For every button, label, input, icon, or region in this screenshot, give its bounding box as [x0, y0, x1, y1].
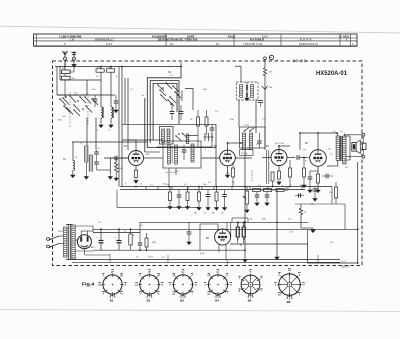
svg-text:B1: B1	[110, 299, 114, 303]
ground L10	[72, 171, 74, 174]
tube B1 leads	[120, 157, 129, 159]
mains plug terminal 2	[47, 245, 50, 248]
wire antenna into box	[64, 60, 66, 66]
tube base B3 diagram	[173, 275, 192, 294]
wire mid horizontal y124	[122, 123, 216, 125]
capacitor marks C8	[258, 100, 263, 102]
wire left verticals bundle	[56, 67, 58, 96]
svg-text:1 TRUCTM TJ KA.: 1 TRUCTM TJ KA.	[243, 43, 263, 46]
grid cap C9	[114, 156, 116, 161]
speaker	[352, 143, 356, 152]
wire speaker terminals	[345, 134, 362, 136]
svg-text:m: m	[230, 283, 232, 286]
svg-text:KALD: KALD	[228, 34, 235, 38]
title table row line 1	[34, 37, 358, 39]
tube B2 top lead	[227, 143, 229, 150]
switch gang dashed line	[87, 93, 89, 126]
svg-text:9101 B: 9101 B	[342, 265, 350, 268]
wire rectifier cathode out	[83, 249, 85, 255]
wire y244 link	[230, 243, 308, 245]
tube B1	[129, 151, 144, 166]
svg-text:WAARDENAJ.LT: WAARDENAJ.LT	[95, 38, 115, 41]
wire right feed vertical	[357, 162, 359, 263]
resistor R19	[215, 192, 218, 201]
resistor R3 box	[62, 70, 71, 74]
coil L6 in can	[191, 144, 194, 162]
tube B6	[215, 229, 231, 245]
resistor R24 screen	[334, 187, 337, 198]
capacitor C28	[138, 242, 143, 244]
resistor R14 horizontal	[264, 189, 272, 192]
svg-text:4a 4a: 4a 4a	[244, 125, 250, 127]
resistor R9	[242, 227, 245, 237]
svg-text:1M: 1M	[269, 72, 272, 74]
tube B2	[220, 150, 236, 166]
svg-text:HX520A-01: HX520A-01	[316, 71, 348, 77]
wire transformer taps	[75, 225, 93, 227]
ground cluster right	[108, 175, 112, 180]
wire b6 agc link	[139, 222, 141, 238]
resistor R11 vertical	[271, 172, 274, 181]
title table column lines	[36, 34, 38, 46]
ground R7	[114, 176, 118, 181]
wire switch feed	[64, 86, 66, 98]
ground R21	[302, 183, 306, 188]
capacitor C19	[206, 194, 211, 196]
wire earth into box	[73, 65, 75, 68]
tube B3	[271, 150, 287, 166]
svg-text:m: m	[260, 277, 262, 280]
oscillator coil pack S3	[160, 127, 174, 145]
capacitor C16	[265, 194, 270, 196]
wire B6 plate loop	[231, 218, 233, 222]
tube B3 leads	[262, 157, 271, 159]
padder resistors	[197, 117, 200, 126]
svg-text:10k: 10k	[72, 78, 75, 80]
wire rectifier anodes	[80, 231, 82, 235]
svg-text:18k: 18k	[226, 173, 229, 175]
wire bottom mid vertical	[199, 224, 201, 250]
wire R3 R5 links	[64, 67, 66, 71]
ground in osc can	[246, 93, 248, 96]
wire pickup drop	[264, 78, 266, 151]
ground C21	[313, 197, 317, 202]
wire input horizontal y95	[57, 94, 115, 96]
ground R19	[214, 206, 218, 211]
rectifier tube B5	[77, 235, 91, 249]
power transformer secondary	[72, 225, 75, 259]
svg-text:B6: B6	[287, 300, 291, 304]
resistor R2 box	[107, 69, 115, 72]
page bottom scan edge rule	[0, 310, 400, 312]
ground R12	[245, 208, 249, 213]
resistor R1 box	[96, 69, 104, 72]
tube B2 bottom lead	[227, 166, 229, 173]
capacitor C33	[325, 174, 327, 179]
wire det junction	[287, 187, 289, 191]
resistor R5 box	[62, 76, 71, 80]
wire cluster drops	[72, 142, 74, 161]
earth lead symbol	[73, 51, 75, 57]
IF transformer can T2	[163, 141, 201, 168]
wire x267 pair	[266, 150, 268, 184]
resistor R6 on pickup line	[264, 60, 266, 67]
resistor R7 zigzag	[115, 162, 118, 173]
heater line 2	[72, 261, 340, 263]
tube B3 top lead	[278, 146, 280, 150]
wire y207 link	[117, 206, 199, 208]
capacitor C15	[255, 194, 260, 196]
ground C16	[265, 201, 269, 206]
wire cluster to B1 grid	[104, 157, 129, 159]
coil L7	[85, 146, 88, 162]
power transformer core	[67, 225, 69, 260]
title table row line 2	[34, 40, 358, 42]
capacitor C24 cathode	[308, 176, 313, 178]
tube base B4 diagram	[208, 275, 227, 294]
tube B4	[310, 150, 327, 167]
svg-text:DE B-NAJTAAN R.E. TVRA R.R: DE B-NAJTAAN R.E. TVRA R.R.	[158, 38, 198, 42]
wire nested loop 1	[147, 63, 181, 148]
capacitor C14	[94, 161, 99, 163]
wire B+ drop left	[299, 133, 301, 150]
svg-text:m: m	[303, 283, 305, 286]
capacitor C32	[187, 231, 192, 233]
wire psu horizontals	[93, 232, 140, 234]
wire top feed	[55, 66, 181, 68]
resistor R23 cathode	[317, 174, 320, 183]
svg-text:AA: AA	[170, 43, 174, 46]
wire can T2 links	[152, 157, 163, 159]
tick marks heater rail	[109, 260, 111, 262]
resistor R32	[145, 238, 148, 247]
coil L9a	[243, 133, 246, 150]
wire osc bottom	[157, 146, 212, 148]
svg-text:B4: B4	[215, 299, 219, 303]
osc trimmer arrows	[176, 136, 181, 141]
ground C20	[222, 206, 226, 211]
resistor R31	[243, 227, 246, 237]
svg-text:6,3V~: 6,3V~	[200, 253, 206, 255]
wire B2 right lead	[235, 157, 252, 159]
resistor R34 leg	[186, 192, 189, 201]
capacitor C20	[222, 194, 227, 196]
capacitor C6	[179, 111, 184, 113]
title table frame	[34, 34, 358, 46]
tube B1 top lead	[135, 140, 137, 150]
IF can T3 lower	[240, 127, 266, 148]
ground R28	[311, 228, 315, 233]
capacitor C17	[298, 193, 300, 197]
heater drop wires	[109, 254, 111, 260]
osc switch extra arrows	[160, 90, 166, 96]
capacitor C21 with ground	[314, 187, 316, 190]
svg-text:50k: 50k	[203, 184, 206, 186]
wire grid line y142	[72, 141, 147, 143]
wire bus line 2	[120, 189, 305, 191]
tube B4 top lead	[317, 133, 319, 150]
wire can T1 drops	[238, 100, 240, 127]
label plate near B2	[240, 150, 254, 156]
resistor R30	[237, 227, 240, 237]
resistor R18	[198, 192, 201, 201]
wire x307 drop	[307, 244, 309, 263]
coil L9b	[250, 133, 253, 150]
coil L10 bumps	[73, 161, 75, 171]
wire bundle extra	[144, 98, 146, 152]
capacitor C34 leg	[177, 194, 182, 196]
coil L11 small	[186, 134, 189, 144]
wire AF line	[93, 249, 245, 251]
output transformer secondary	[343, 136, 346, 164]
resistor R8	[236, 227, 239, 237]
switch S2 contacts	[158, 85, 164, 91]
speaker terminal bottom	[362, 155, 365, 158]
resistor R13 horizontal	[253, 189, 261, 192]
junction dots	[100, 66, 102, 68]
svg-text:B5: B5	[248, 299, 252, 303]
wire AGC line	[140, 221, 308, 223]
svg-text:R .R. R. R.: R .R. R. R.	[300, 38, 312, 41]
ground C15	[255, 201, 259, 206]
wire grid feed vertical	[127, 78, 129, 150]
antenna terminal	[64, 57, 67, 60]
resistor R35 smoothing	[129, 234, 132, 245]
earth chassis arrow	[73, 60, 75, 62]
ground tube B2	[225, 173, 229, 178]
resistor R15 horizontal	[276, 189, 284, 192]
ground tube B4	[316, 188, 320, 193]
wire x245 long vertical	[244, 150, 246, 258]
wire B+ rail	[93, 228, 358, 230]
volume potentiometer R12	[245, 191, 248, 204]
wire left long vertical	[121, 67, 123, 187]
marks right of can	[204, 133, 206, 141]
ground x277	[275, 255, 279, 260]
wire mid loop right	[185, 89, 193, 111]
ground tube B3	[277, 180, 281, 185]
speaker terminal top	[362, 133, 365, 136]
mains plug terminal 1	[47, 238, 50, 241]
svg-text:B2: B2	[147, 299, 151, 303]
capacitor C5	[170, 111, 175, 113]
ground tube B1	[134, 179, 138, 184]
ground C24	[308, 188, 312, 193]
switch arrows in can	[245, 128, 250, 132]
wire B+ top rail	[300, 132, 338, 134]
antenna	[62, 51, 67, 57]
mains switch contacts	[50, 236, 59, 240]
speaker terminal plate	[362, 143, 366, 149]
tube base B5 diagram	[241, 275, 260, 294]
svg-text:LTJ 4: LTJ 4	[106, 43, 113, 46]
capacitor C22 coupling	[296, 155, 298, 160]
capacitor C11 in can	[182, 149, 187, 151]
wire osc horizontals	[122, 139, 163, 141]
page top scan edge rule	[0, 26, 400, 33]
resistor R29 vertical	[232, 168, 235, 177]
ground R33	[168, 205, 172, 210]
wire transformer links	[337, 133, 339, 136]
ground x245	[243, 258, 247, 263]
svg-text:R A.R WA.R: R A.R WA.R	[250, 38, 264, 41]
wire antenna drop	[64, 62, 66, 67]
ground C34	[177, 205, 181, 210]
wire input mesh	[59, 67, 61, 81]
title table bottom shadow line	[34, 46, 358, 48]
wire y204 link	[295, 203, 345, 205]
resistor R33 leg	[169, 192, 172, 201]
output transformer primary	[336, 136, 339, 161]
tube B4 cathode lead	[317, 166, 319, 174]
resistor R28 zigzag	[300, 204, 302, 208]
pickup terminal	[264, 57, 267, 60]
wire terminal stub	[235, 65, 241, 67]
coil L1	[101, 107, 103, 118]
ground L8	[85, 162, 87, 175]
wire secondary vertical	[349, 136, 351, 160]
svg-text:Fig.4: Fig.4	[82, 281, 95, 287]
capacitor C7	[210, 127, 215, 129]
earth terminal	[73, 57, 76, 60]
wire R28 to ground	[301, 227, 313, 229]
switch extra contacts	[74, 110, 80, 116]
electrolytic C30	[99, 240, 104, 242]
ground C19	[206, 206, 210, 211]
heater line 1	[72, 259, 340, 261]
border tick marks top right	[293, 59, 295, 62]
svg-text:m: m	[157, 292, 159, 295]
tube B6 top leads	[217, 224, 219, 231]
svg-text:B3: B3	[180, 299, 184, 303]
diode tap mark	[262, 86, 268, 90]
coil L8	[89, 155, 92, 171]
trimmer C2	[114, 100, 119, 102]
svg-text:2M: 2M	[281, 186, 284, 188]
output transformer core	[340, 136, 342, 161]
trimmer C1	[93, 98, 98, 100]
switch cluster extra marks	[60, 99, 66, 106]
wire det vertical x277	[276, 190, 278, 255]
wire coil links	[100, 95, 102, 107]
tube B6 bottom lead	[218, 245, 220, 253]
svg-text:17k: 17k	[328, 149, 331, 151]
svg-text:220V: 220V	[58, 231, 64, 233]
ground R34	[185, 205, 189, 210]
tube base B1 diagram	[103, 275, 122, 294]
dashed column near pot	[251, 170, 253, 181]
svg-text:RAJNUAT.R.B JS: RAJNUAT.R.B JS	[299, 43, 318, 46]
svg-text:m: m	[195, 283, 197, 286]
tube base B6 diagram	[279, 274, 301, 296]
wire det risers	[237, 222, 239, 227]
svg-text:L W.: L W.	[70, 38, 75, 41]
electrolytic C31	[117, 240, 122, 242]
power transformer primary	[64, 227, 67, 257]
ground C2	[114, 108, 118, 113]
schematic dashed border	[53, 61, 363, 266]
wire nested loop 3	[153, 83, 177, 140]
switch S1 contacts	[63, 98, 69, 105]
wire bus line 1	[120, 186, 332, 188]
svg-text:6,3 V: 6,3 V	[148, 256, 153, 258]
ground C32	[187, 240, 191, 245]
wire loop bottoms	[187, 135, 198, 137]
wire bottom right horizontal	[308, 262, 358, 264]
ground L1	[99, 123, 103, 128]
svg-text:1K2 C14a: 1K2 C14a	[275, 143, 285, 145]
bus tick marks	[145, 187, 147, 190]
resistor R20 cathode	[278, 171, 281, 179]
resistor R4 cathode	[135, 170, 138, 178]
resistor R21 grid leak	[303, 168, 306, 177]
capacitor C10 in can	[257, 140, 262, 142]
wire nested loop 2	[150, 81, 179, 143]
svg-text:1N 1N: 1N 1N	[241, 153, 247, 155]
ground R18	[197, 206, 201, 211]
switch gang dashed line 2	[69, 92, 71, 127]
resistor R16 vertical	[289, 168, 292, 177]
coil L2	[111, 107, 113, 118]
ground L2	[109, 123, 113, 128]
capacitor C13	[94, 151, 99, 153]
IF transformer can T1	[237, 82, 259, 100]
wire R1 feeds	[100, 67, 102, 69]
svg-text:D. ADA:: D. ADA:	[340, 35, 350, 39]
wire right side links	[331, 187, 333, 205]
svg-text:1A: 1A	[216, 43, 219, 46]
svg-text:m: m	[121, 292, 123, 295]
tube base B2 diagram	[140, 275, 159, 294]
